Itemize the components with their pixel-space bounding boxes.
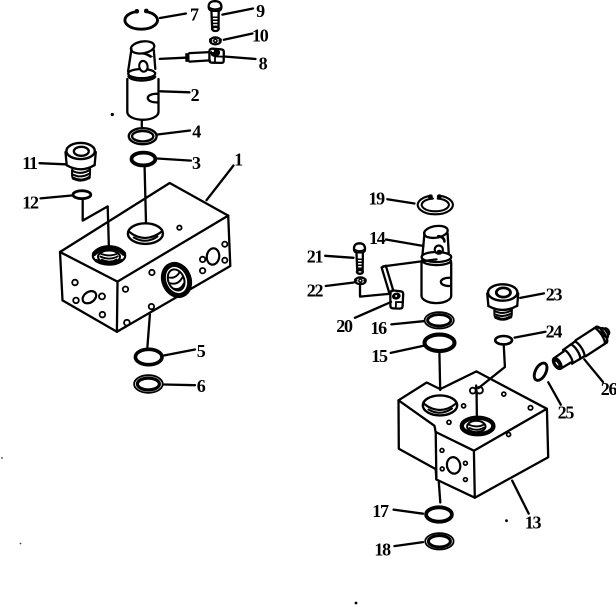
svg-text:24: 24	[546, 322, 563, 342]
svg-text:12: 12	[22, 192, 39, 212]
svg-text:10: 10	[252, 26, 269, 46]
svg-text:16: 16	[370, 318, 387, 338]
svg-text:2: 2	[191, 85, 200, 105]
svg-text:17: 17	[372, 501, 389, 521]
svg-text:11: 11	[22, 153, 38, 173]
svg-text:4: 4	[192, 122, 201, 142]
svg-text:15: 15	[371, 346, 388, 366]
svg-text:1: 1	[234, 150, 243, 170]
svg-text:13: 13	[525, 512, 542, 532]
svg-text:3: 3	[192, 153, 201, 173]
svg-text:7: 7	[190, 5, 199, 25]
svg-text:14: 14	[369, 228, 386, 248]
svg-text:21: 21	[307, 247, 324, 267]
svg-text:19: 19	[368, 189, 385, 209]
svg-text:23: 23	[546, 284, 563, 304]
svg-text:26: 26	[601, 379, 616, 399]
svg-text:8: 8	[259, 54, 268, 74]
svg-text:5: 5	[197, 341, 206, 361]
svg-text:9: 9	[256, 1, 265, 21]
svg-text:20: 20	[336, 316, 353, 336]
svg-text:25: 25	[558, 402, 575, 422]
svg-text:6: 6	[197, 376, 206, 396]
svg-text:18: 18	[374, 539, 391, 559]
svg-text:22: 22	[307, 280, 324, 300]
